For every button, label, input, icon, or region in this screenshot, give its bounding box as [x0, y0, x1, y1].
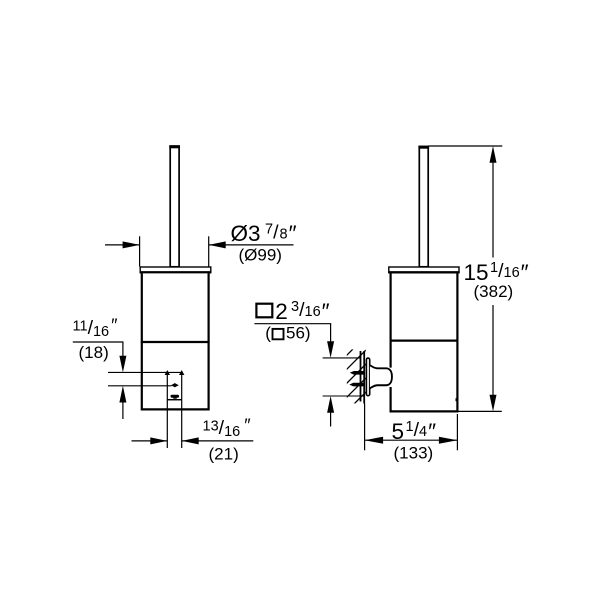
width dim left extension line (wall face): [364, 404, 366, 451]
svg-text:(21): (21): [209, 445, 239, 464]
diameter dimension: right extension line: [208, 236, 210, 266]
11/16" leader underline: [73, 341, 124, 343]
diameter dimension line right segment with arrow: [209, 241, 294, 248]
13/16" dimension line right segment with arrow: [182, 437, 254, 444]
label (square 56): [265, 324, 310, 343]
glass level nub on canister right edge: [456, 398, 458, 401]
svg-text:56): 56): [286, 324, 311, 343]
svg-text:(18): (18): [79, 343, 109, 362]
13/16" dimension line left segment with arrow: [132, 437, 168, 444]
svg-text:(: (: [265, 324, 271, 343]
small up arrowhead on right hole line: [179, 370, 184, 375]
svg-text:(Ø99): (Ø99): [239, 246, 282, 265]
square dim lower extension line: [323, 395, 365, 397]
svg-text:51/4″: 51/4″: [392, 419, 437, 444]
square dim leader underline: [254, 323, 331, 325]
brush handle (right view): [418, 146, 429, 267]
height dim bottom extension line (from canister bottom): [457, 410, 501, 412]
canister body (right view, left edge broken at arm): [391, 273, 458, 411]
square dim upper extension line: [323, 357, 360, 359]
lid (left view): [140, 267, 212, 272]
square dim lower arrow (up): [327, 396, 334, 427]
width dim right extension line (canister face): [456, 414, 458, 450]
canister body (left view): [142, 273, 209, 409]
canister mid line (left view): [141, 341, 210, 343]
square dim upper arrow (down): [327, 324, 334, 358]
svg-text:23/16″: 23/16″: [275, 299, 329, 324]
11/16" upper arrow (down): [119, 342, 126, 372]
screw slot glyph (dark bar): [171, 395, 180, 399]
hole extension line right (13/16 dim): [181, 374, 183, 448]
brush handle (left view): [169, 145, 180, 267]
holder arm (trumpet stem): [370, 365, 392, 388]
upper witness line (mount top): [108, 371, 182, 373]
lower witness line (mount hole centre): [108, 385, 172, 387]
wall mount plate edge lines: [361, 351, 365, 404]
height dimension line upper segment with up arrow: [490, 146, 497, 258]
hole extension line left (13/16 dim): [166, 374, 168, 448]
mounting screw upper: [350, 371, 365, 375]
width dimension line with outward arrows: [365, 437, 458, 444]
svg-text:(382): (382): [474, 282, 514, 301]
short line under screw glyph: [167, 399, 182, 401]
mounting screw lower: [349, 383, 364, 387]
small up arrowhead on left hole line: [165, 370, 170, 375]
square dimension label 2 3/16" with square symbol: [256, 299, 329, 324]
11/16" lower arrow (up): [119, 386, 126, 419]
canister mid line (right view): [390, 340, 459, 342]
diameter dimension line left segment with arrow: [105, 241, 140, 248]
screw glyph (outward arrows): [171, 383, 179, 387]
diameter dimension Ø3 7/8" : left extension line: [139, 236, 141, 266]
wall hatching: [340, 336, 366, 432]
height dim top extension line (from handle top): [428, 145, 502, 147]
svg-text:(133): (133): [394, 443, 434, 462]
height dimension line lower segment with down arrow: [490, 305, 497, 411]
lid (right view): [388, 267, 459, 272]
rosette flange (rounded square, side view): [366, 358, 369, 396]
